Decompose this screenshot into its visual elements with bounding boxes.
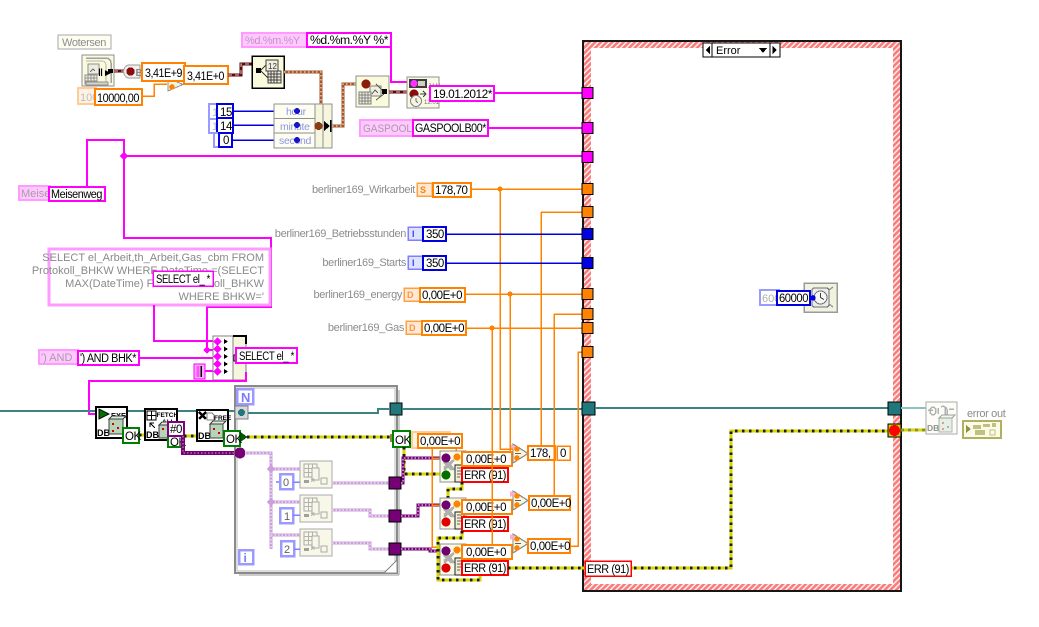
string indicator SELECT el_* (concat output) [236,348,297,363]
loop tunnel purple 1 [389,477,401,489]
string constant small (space) [194,364,205,379]
case tunnel red (error) [888,424,901,437]
string indicator SELECT el_* (upper) [153,271,213,286]
for loop N box [237,389,253,405]
wire timestamp icon3 to icon4 [389,91,407,94]
error wire OK1 to FETCH [139,434,145,437]
error tunnel into for loop (green arrow) [240,432,247,442]
wire 350 starts to tunnel [446,262,583,264]
svg-text:%d.%m.%Y: %d.%m.%Y [245,35,301,47]
numeric indicator 0,00E+0 (energy) [420,288,465,302]
case tunnel orange 5 [582,323,593,334]
2D array wire #0 to loop tunnel [183,436,234,453]
error wire inside loop [247,436,390,439]
svg-text:D: D [409,323,416,333]
svg-text:0,00E+0: 0,00E+0 [422,290,462,302]
numeric indicator 0 (overlap) [557,446,570,460]
divide triangle D3 [510,534,528,553]
wire space const to concat input 5 [205,370,213,372]
wire concat output down to EXE node [89,372,246,414]
wait ms icon [804,283,837,312]
variant-to-data node 1 [440,451,466,482]
svg-text:14: 14 [220,121,233,133]
wire gas to tunnel [466,327,583,329]
wire select box to concat input 1 [154,305,213,341]
type glyph SGL [417,183,432,196]
loop tunnel purple junction [235,448,246,459]
loop tunnel purple 2 [389,510,401,522]
OK indicator 4 (loop error out) [390,431,411,447]
conversion node (to double) with coercion dot [124,65,144,79]
svg-text:0,00E+0: 0,00E+0 [420,436,460,448]
wire timestamp icon1 to conversion [114,70,127,73]
svg-text:DB: DB [146,430,159,440]
svg-text:60000: 60000 [779,293,808,305]
wire 10000 to divide [142,84,167,96]
ghost label Meise [19,186,50,200]
numeric indicator #0 [168,422,184,436]
case selector label "Error" [703,43,780,57]
variant-to-data node 3 [440,544,466,575]
svg-text:SELECT el_Arbeit,th_Arbeit,Gas: SELECT el_Arbeit,th_Arbeit,Gas_cbm FROM [42,252,264,264]
case tunnel orange 1 [582,184,593,195]
OK indicator 1 [123,428,141,443]
svg-text:D: D [407,290,414,300]
DB tools fetch all node [145,409,178,440]
wire 178,70 to tunnel [471,188,583,190]
for loop frame [235,386,399,575]
error wire node2 to node3 [438,531,480,580]
svg-text:FETCH: FETCH [157,412,179,419]
numeric indicator 0,00E+0 (D3 result) [528,539,570,553]
numeric constant 0,00E+0 (type) [418,434,462,448]
numeric indicator 0,00E+0 node2 [462,500,512,514]
case tunnel magenta 1 [582,88,593,99]
numeric indicator 350 (Starts) [423,256,446,270]
teal wire inside loop [248,409,389,413]
svg-text:0: 0 [560,448,566,460]
bundle node hour/minute/second [274,104,332,148]
error wire OK2 to FREE [184,435,197,438]
1D array wire inside loop (violet) [245,453,271,549]
teal wire inside case [595,407,889,409]
label Wotersen [58,35,111,49]
svg-text:1: 1 [284,511,290,523]
svg-text:0,00E+0: 0,00E+0 [466,454,506,466]
string constant GASPOOLB00* [413,120,488,136]
index array node 1 [300,461,332,488]
svg-text:#0: #0 [170,424,182,436]
violet branch wires to index arrays [271,469,300,535]
svg-text:10000,00: 10000,00 [97,93,139,105]
error wire OK4 to node1 [404,447,440,474]
case tunnel teal right [888,402,901,415]
string constant ') AND BHK* [78,351,139,365]
numeric constant 10000,00 [95,89,142,105]
svg-text:Wotersen: Wotersen [62,37,106,49]
case tunnel teal left [582,402,595,415]
divide triangle D2 [510,491,528,510]
wire D2 result to tunnel [554,313,583,315]
svg-text:12: 12 [268,62,277,71]
svg-text:GASPOOL: GASPOOL [363,123,412,135]
svg-text:0,00E+0: 0,00E+0 [531,498,571,510]
svg-text:DB: DB [198,431,211,441]
numeric constant 15 with ghost [209,104,233,119]
svg-text:OK: OK [395,435,411,447]
svg-text:Error: Error [716,45,741,57]
numeric indicator 0,00E+0 node1 [462,452,512,466]
wire AND BHK to concat input 3 [139,357,213,359]
type glyph I32 [408,227,423,240]
svg-text:berliner169_Wirkarbeit: berliner169_Wirkarbeit [312,184,415,196]
concatenate strings node [213,336,246,380]
svg-text:19.01.2012*: 19.01.2012* [433,89,493,101]
teal wire case to DB close [901,407,926,409]
string indicator ERR (91) node2 [462,517,508,531]
svg-text:i: i [244,551,247,565]
teal DB connection wire from left edge [0,410,96,412]
violet junctions [267,465,275,473]
ghost label %d.%m.%Y [242,33,308,47]
svg-text:ERR (91): ERR (91) [464,470,507,482]
case tunnel blue 2 [582,258,593,269]
svg-text:berliner169_energy: berliner169_energy [314,289,403,301]
numeric indicator 178, (D1 result) [528,446,555,460]
svg-text:DB: DB [97,428,110,438]
string indicator 19.01.2012* [430,86,494,101]
divide triangle (top left) [168,78,183,91]
wire string format down to icon4 [391,47,407,82]
ghost constant behind 0,00E+0 [412,432,450,448]
numeric indicator 350 (Betriebsstunden) [423,227,446,241]
ghost label ') AND [39,350,78,364]
orange type wires from constant [432,448,513,547]
svg-text:0,00E+0: 0,00E+0 [424,323,464,335]
svg-text:N: N [241,390,250,405]
svg-text:I: I [412,229,415,239]
svg-text:error out: error out [967,408,1006,420]
numeric indicator 178,70 [433,183,471,197]
case tunnel magenta 2 [582,123,593,134]
index array node 3 [300,529,332,556]
svg-text:350: 350 [426,229,444,241]
svg-text:Meise: Meise [21,188,50,200]
junction concat input [203,346,210,353]
OK indicator 2 (behind #0) [168,435,186,449]
type glyph I32 [408,256,423,269]
loop tunnel teal (DB ref) [235,406,248,419]
string indicator ERR (91) on case border [585,561,631,576]
variant-to-data node 2 [440,498,466,529]
numeric constant 14 with ghost [209,118,233,133]
wire cluster icon2 to bundle [284,72,321,104]
loop tunnel teal out [390,403,402,415]
violet wires index arrays to tunnels [332,483,389,549]
numeric constant 2 (index) [281,541,300,556]
numeric constant 0 (index) [276,474,300,489]
OK indicator 3 [224,431,242,446]
numeric indicator 3,41E+9 [142,63,185,81]
svg-text:350: 350 [426,258,444,270]
svg-text:SELECT el_ *: SELECT el_ * [239,351,295,363]
svg-text:I: I [412,258,415,268]
purple wire tunnel3 to node3 [401,549,440,551]
for loop i box [239,550,253,565]
case tunnel orange 6 [582,347,593,358]
ghost label 100 [78,88,98,104]
numeric constant 60000 [777,291,816,305]
svg-text:0,00E+0: 0,00E+0 [530,541,570,553]
svg-text:ERR (91): ERR (91) [464,563,507,575]
svg-text:OK: OK [125,431,141,443]
svg-text:0,00E+0: 0,00E+0 [466,502,506,514]
svg-text:ERR (91): ERR (91) [587,564,630,576]
numeric indicator 0,00E+0 node3 [462,545,512,559]
svg-text:ERR (91): ERR (91) [464,519,507,531]
svg-text:Meisenweg: Meisenweg [51,189,102,201]
index array node 2 [300,495,332,522]
svg-text:berliner169_Starts: berliner169_Starts [322,257,406,269]
case structure "Error" border [583,41,901,591]
icon get date/time (Wotersen VI) [82,55,114,86]
orange vertical wire net [492,189,583,546]
numeric constant 0 with ghost [214,133,232,147]
ghost label GASPOOL [360,120,414,136]
svg-text:berliner169_Gas: berliner169_Gas [328,322,405,334]
wire gaspool to tunnel [488,127,583,129]
svg-text:') AND BHK*: ') AND BHK* [80,353,137,365]
loop tunnel purple 3 [389,543,401,555]
teal wire between DB nodes [127,410,145,412]
DB tools free object node [197,410,232,441]
svg-text:0: 0 [223,135,229,147]
svg-text:berliner169_Betriebsstunden: berliner169_Betriebsstunden [275,228,406,240]
case tunnel orange 2 [582,207,593,218]
icon format date/time string [407,77,441,108]
wire string to tunnel [494,92,583,94]
svg-text:S: S [420,185,426,195]
wire meisenweg string routing [87,140,271,350]
error wire node1 to node2 [440,482,462,522]
purple wire tunnel2 to node2 [401,505,440,516]
wire 350 to tunnel [446,233,583,235]
case tunnel orange 4 [582,309,593,320]
string indicator ERR (91) node3 [462,561,508,575]
case tunnel blue 1 [582,229,593,240]
numeric indicator 0,00E+0 (D2 result) [529,496,571,510]
numeric indicator 0,00E+0 (Gas) [422,321,466,335]
svg-text:2: 2 [284,544,290,556]
type glyph DBL [406,321,422,334]
icon seconds to date/time [356,76,389,107]
svg-text:178,70: 178,70 [435,185,468,197]
junction meisenweg wire [120,152,128,160]
error out indicator [963,421,1001,438]
wire cluster bundle to icon3 [332,84,356,126]
string constant Meisenweg [49,187,105,201]
string indicator ERR (91) node1 [462,468,508,482]
svg-text:3,41E+0: 3,41E+0 [187,71,224,83]
string constant SELECT query (big) [32,249,270,305]
svg-text:0,00E+0: 0,00E+0 [466,547,506,559]
DB tools execute query node EXE [96,407,127,438]
case tunnel orange 3 [582,289,593,300]
purple wire tunnel1 to node1 [401,458,440,483]
blue wires constants to bundle [232,111,274,140]
svg-text:%d.%m.%Y %*: %d.%m.%Y %* [310,35,389,47]
svg-text:WHERE BHKW=': WHERE BHKW=' [178,291,264,303]
wire D1 result to tunnel [541,211,583,213]
wire meisenweg long branch to case tunnel [124,155,583,157]
numeric constant 1 (index) [280,508,300,523]
wire junction to concat input 2 [207,349,213,351]
divide triangle D1 [510,444,528,463]
svg-text:0: 0 [283,477,289,489]
svg-text:3,41E+9: 3,41E+9 [145,68,182,80]
svg-text:178,: 178, [530,448,551,460]
icon date/time to seconds [252,56,284,88]
wire energy to tunnel [465,293,583,295]
ghost constant 600 [760,290,780,305]
error wire node3 out to case [508,431,889,568]
error wire case to DB close [901,429,926,432]
case tunnel magenta 3 [582,152,593,163]
svg-text:SELECT el_ *: SELECT el_ * [156,274,211,286]
DB tools close connection icon [926,402,957,434]
string constant %d.%m.%Y %* [307,33,391,47]
wire timestamp divide out to icon2 [228,64,252,75]
svg-text:DB: DB [927,423,939,433]
teal wire loop to case [402,408,583,410]
numeric indicator 3,41E+0 [184,66,228,84]
type glyph DBL [404,288,420,301]
svg-text:GASPOOLB00*: GASPOOLB00* [415,123,487,135]
svg-text:Protokoll_BHKW WHERE DateTime: Protokoll_BHKW WHERE DateTime =(SELECT [32,265,264,277]
svg-text:') AND: ') AND [41,352,72,364]
